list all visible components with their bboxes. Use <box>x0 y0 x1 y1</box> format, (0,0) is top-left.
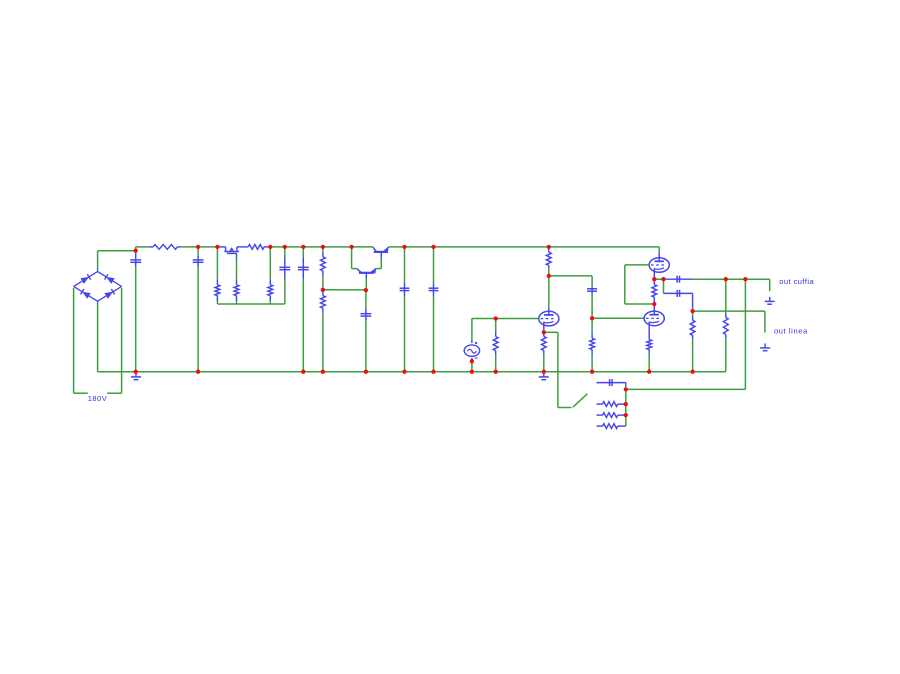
svg-text:180V: 180V <box>88 394 108 403</box>
svg-text:out linea: out linea <box>774 327 808 336</box>
svg-text:out cuffia: out cuffia <box>779 277 814 286</box>
